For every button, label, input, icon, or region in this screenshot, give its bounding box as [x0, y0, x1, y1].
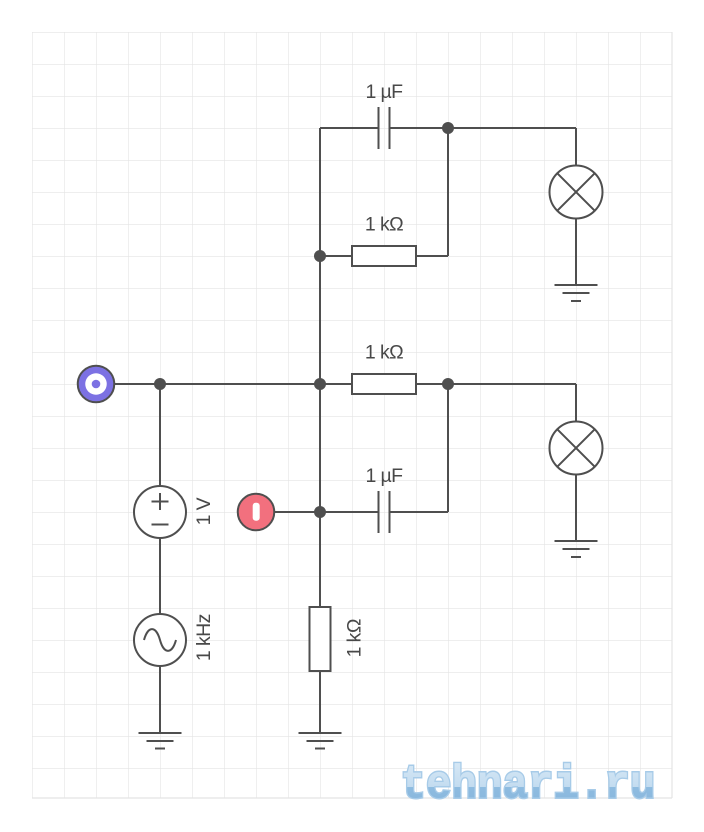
resistor R1 1k — [352, 246, 416, 266]
wire red node row y=512 — [275, 384, 449, 512]
svg-text:1 V: 1 V — [193, 497, 215, 525]
node at 448,128 — [442, 122, 454, 134]
node at 320,384 — [314, 378, 326, 390]
labels — [193, 81, 403, 661]
voltage source V1 — [134, 486, 186, 538]
red current node — [238, 494, 275, 531]
lamp L2 — [550, 422, 603, 475]
node at 320,256 — [314, 250, 326, 262]
wire source branch x=160 — [159, 384, 161, 733]
resistor R3 1k vertical — [310, 607, 331, 671]
ground G2 under lamp2 — [555, 541, 598, 557]
ground G4 under R3 — [299, 733, 342, 749]
svg-text:1 kΩ: 1 kΩ — [365, 214, 403, 236]
blue probe node — [78, 366, 115, 403]
resistor R2 1k — [352, 374, 416, 394]
ground G3 under ac source — [139, 733, 182, 749]
wire lamp1 to ground — [575, 219, 577, 286]
svg-text:1 kΩ: 1 kΩ — [344, 619, 366, 657]
ac source 1kHz — [134, 614, 186, 666]
svg-text:1 kHz: 1 kHz — [193, 614, 215, 661]
node at 160,384 — [154, 378, 166, 390]
wire left vertical x=320 from cap1 row down to main row — [319, 128, 321, 384]
capacitor C2 1uF plates — [379, 491, 390, 533]
wire x=320 main row down to R3 and ground — [319, 384, 321, 733]
wire R1 row — [320, 128, 448, 256]
wire top row to capacitor C1 — [320, 127, 576, 129]
node at 320,512 — [314, 506, 326, 518]
wire main row y=384 — [115, 384, 577, 422]
capacitor C1 1uF plates — [379, 107, 390, 149]
svg-text:1 µF: 1 µF — [365, 81, 403, 103]
node at 448,384 — [442, 378, 454, 390]
wire lamp2 to ground — [575, 475, 577, 542]
svg-text:tehnari.ru: tehnari.ru — [401, 760, 656, 813]
ground G1 under lamp1 — [555, 285, 598, 301]
lamp L1 — [550, 166, 603, 219]
svg-text:1 kΩ: 1 kΩ — [365, 342, 403, 364]
junction node dots — [154, 122, 454, 518]
svg-text:1 µF: 1 µF — [365, 465, 403, 487]
wire top right down to lamp — [575, 128, 577, 166]
